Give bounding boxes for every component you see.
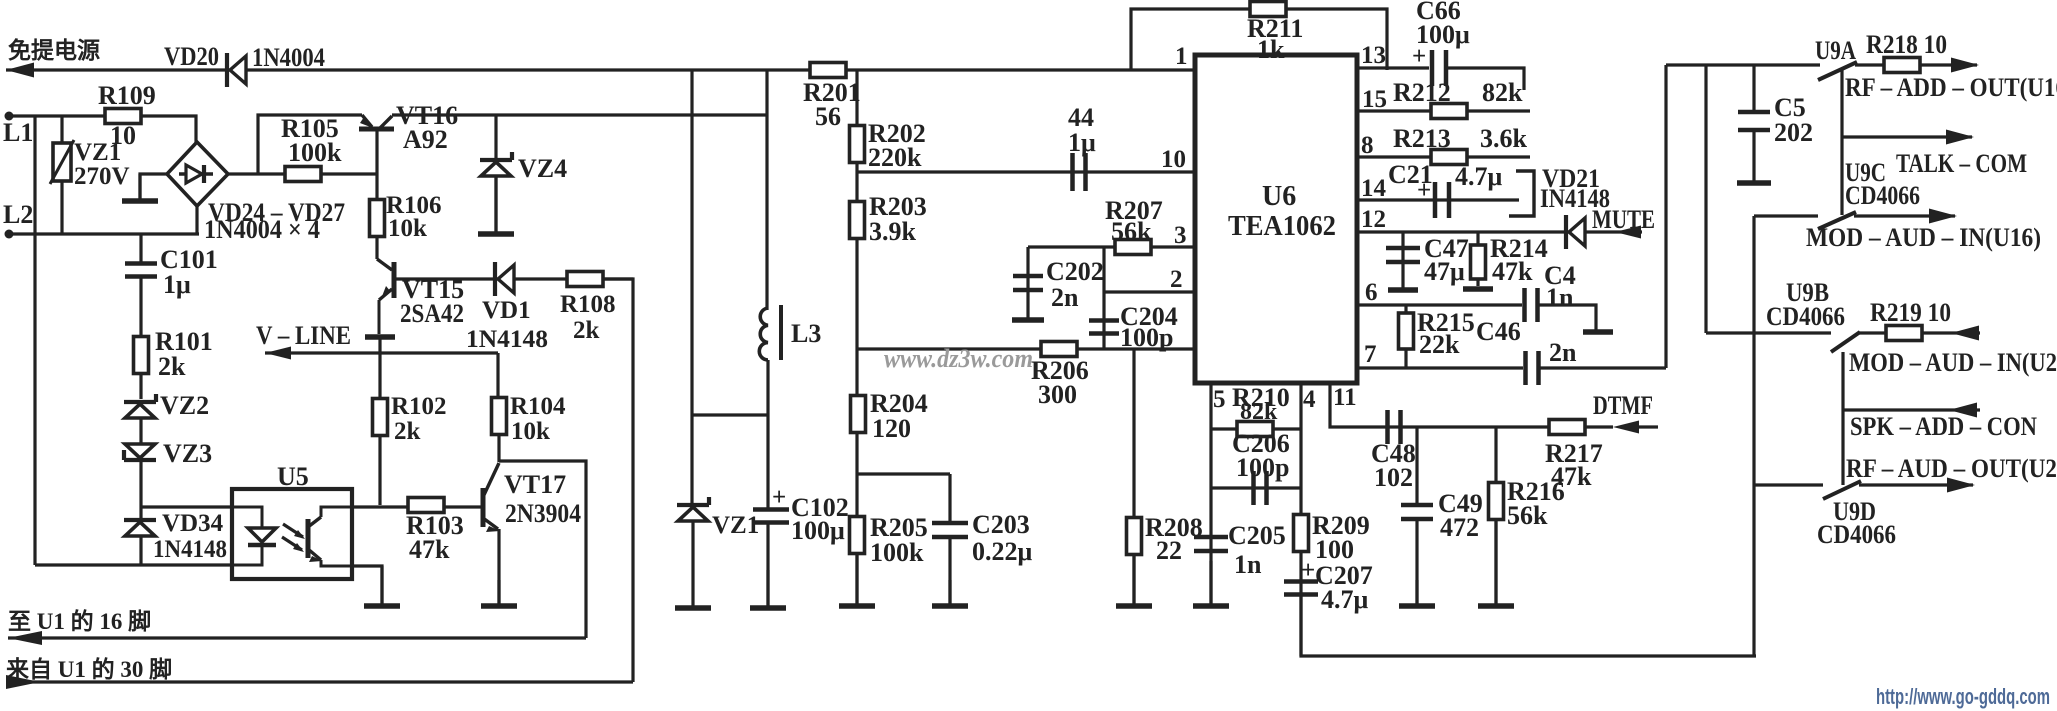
wire R102 bottom to opto output node	[378, 435, 381, 505]
zener diode VZ3	[124, 444, 156, 460]
arrow head RF-ADD-OUT	[1951, 58, 1979, 73]
svg-text:R104: R104	[510, 393, 566, 420]
svg-text:10k: 10k	[388, 215, 427, 242]
resistor R105	[285, 167, 321, 182]
resistor R101	[134, 337, 149, 374]
terminal bar below R214	[1463, 286, 1493, 292]
wire VT15 base to VD1/R108	[396, 277, 633, 280]
bridge rectifier VD24-VD27	[167, 142, 228, 206]
svg-text:47k: 47k	[409, 535, 450, 564]
svg-text:C202: C202	[1046, 257, 1104, 286]
wire pin4 chain	[1299, 383, 1302, 656]
resistor R210	[1237, 422, 1273, 437]
capacitor C66 100u	[1432, 50, 1446, 86]
ground below R216	[1478, 519, 1514, 606]
resistor R201	[810, 63, 846, 78]
wire pin5 chain	[1209, 383, 1212, 604]
wire pin13 to C66	[1357, 66, 1429, 69]
wire pin3 R207 rail	[1028, 245, 1193, 248]
svg-text:56k: 56k	[1507, 501, 1548, 530]
inductor L3	[759, 305, 781, 360]
resistor R204	[851, 396, 866, 433]
svg-text:C203: C203	[972, 510, 1030, 539]
svg-text:220k: 220k	[868, 143, 922, 172]
wire R108 to from-U1-pin30 line	[604, 279, 633, 682]
svg-text:来自 U1 的 30 脚: 来自 U1 的 30 脚	[6, 656, 172, 682]
svg-text:100p: 100p	[1236, 453, 1289, 482]
wire U9B rail	[1706, 331, 1831, 334]
svg-text:1N4148: 1N4148	[153, 536, 227, 563]
resistor R108	[567, 272, 603, 287]
IC U6 TEA1062 box	[1195, 55, 1357, 383]
svg-text:MOD – AUD – IN(U2: MOD – AUD – IN(U2	[1849, 348, 2057, 377]
resistor R216	[1489, 483, 1504, 520]
wire from-U1-pin30 line	[6, 680, 633, 683]
wire bridge left vertex to ground	[140, 174, 168, 199]
ground below C49	[1399, 580, 1435, 606]
svg-text:CD4066: CD4066	[1766, 302, 1845, 331]
wire TALK-COM rail	[1842, 135, 1972, 138]
capacitor C101	[125, 264, 157, 277]
svg-text:2k: 2k	[394, 418, 421, 445]
wire L1 rail B	[9, 116, 196, 146]
svg-text:VD34: VD34	[162, 510, 224, 537]
svg-text:VT17: VT17	[504, 470, 566, 499]
svg-text:www.dz3w.com: www.dz3w.com	[884, 344, 1033, 373]
switch U9A blade	[1818, 62, 1857, 80]
capacitor 44 1u	[1073, 153, 1086, 191]
wire R214 branch	[1476, 232, 1479, 286]
resistor R211	[1250, 2, 1286, 17]
resistor R203	[850, 202, 865, 239]
wire bridge right vertex to VT16 base via R105	[227, 172, 377, 175]
wire VZ3/VD34 node to U5 anode pin	[142, 505, 232, 508]
wire R216 branch	[1494, 427, 1497, 604]
wire R205/C203 junction rail	[857, 472, 950, 475]
resistor R206	[1041, 342, 1077, 357]
wire C46 to right riser	[1540, 366, 1666, 369]
wire C49 to ground	[1415, 520, 1418, 604]
svg-text:100μ: 100μ	[791, 516, 845, 545]
wire L3 bottom to C102	[766, 360, 769, 508]
wire U5 cathode pin lower-left rail	[35, 563, 232, 566]
ground below VT17	[481, 580, 517, 606]
svg-text:R212: R212	[1393, 78, 1451, 107]
wire VZ3 to VD34 node	[139, 460, 142, 519]
wire pin6 C4 rail	[1357, 303, 1522, 306]
svg-text:U6: U6	[1262, 181, 1296, 212]
svg-text:5: 5	[1213, 386, 1226, 413]
resistor R104	[492, 398, 507, 435]
svg-text:1n: 1n	[1546, 283, 1574, 312]
wire pin15 R212 rail	[1357, 109, 1530, 112]
svg-text:100: 100	[1315, 535, 1354, 564]
ground below VZ1 shunt	[675, 521, 711, 608]
resistor R205	[850, 517, 865, 554]
svg-text:2n: 2n	[1051, 283, 1079, 312]
wire SPK-ADD-CON rail	[1843, 408, 1980, 411]
svg-text:11: 11	[1333, 384, 1357, 411]
svg-text:100p: 100p	[1120, 323, 1173, 352]
arrow head MOD-AUD-IN(U16)	[1929, 209, 1957, 224]
wire DTMF stub right of arrow	[1639, 425, 1658, 428]
arrow head TALK-COM	[1946, 130, 1974, 145]
optocoupler U5 phototransistor	[308, 507, 352, 566]
svg-text:R218 10: R218 10	[1866, 30, 1947, 59]
svg-text:TEA1062: TEA1062	[1228, 211, 1336, 242]
svg-text:7: 7	[1364, 341, 1377, 368]
svg-text:L1: L1	[3, 118, 33, 147]
optocoupler U5 box	[232, 489, 352, 579]
svg-text:VZ1: VZ1	[712, 512, 759, 539]
capacitor C203	[932, 523, 968, 537]
wire VZ4 branch	[494, 115, 497, 232]
terminal bar VT15 emitter	[365, 334, 395, 340]
wire VZ2 to VZ3	[139, 418, 142, 446]
capacitor C48	[1388, 410, 1401, 444]
wire MOD-AUD-IN(U16) rail	[1754, 214, 1818, 217]
svg-text:47μ: 47μ	[1424, 257, 1465, 286]
wire R215 bridging pin6 to pin7	[1404, 305, 1407, 368]
transistor VT17 (2N3904 NPN)	[483, 463, 500, 532]
zener diode VZ2	[124, 394, 156, 418]
svg-text:10: 10	[110, 121, 136, 150]
wire right riser pin7 to top rail	[1664, 65, 1667, 368]
ground at bridge left	[122, 174, 158, 201]
svg-text:RF – AUD – OUT(U2: RF – AUD – OUT(U2	[1846, 454, 2057, 483]
svg-text:R109: R109	[98, 81, 156, 110]
terminal bar below C202	[1012, 317, 1044, 323]
svg-text:R108: R108	[560, 291, 616, 318]
wire C47 branch	[1401, 232, 1404, 288]
terminal bar below C5	[1737, 180, 1771, 186]
svg-text:1μ: 1μ	[163, 270, 191, 299]
arrow head RF-AUD-OUT	[1947, 478, 1975, 493]
wire R208 branch	[1132, 349, 1135, 604]
ground below C203	[932, 580, 968, 606]
svg-text:C205: C205	[1228, 521, 1286, 550]
wire bridge output up-junction to VT16 emitter	[258, 115, 362, 174]
capacitor C49	[1401, 505, 1433, 519]
wire L2 rail	[9, 232, 199, 235]
wire VD34 to lower rail	[139, 536, 142, 565]
svg-text:A92: A92	[403, 125, 448, 154]
ground below C102	[750, 570, 786, 608]
wire opto collector to VT17 base	[352, 505, 482, 508]
wire bridge bottom vertex to L2	[195, 205, 198, 234]
resistor R207	[1115, 240, 1151, 255]
terminal bar below C47	[1388, 287, 1418, 293]
capacitor C47	[1386, 248, 1420, 262]
wire R218 to RF-ADD-OUT arrow	[1920, 63, 1977, 66]
resistor R212	[1431, 104, 1467, 119]
transistor VT16 (A92 PNP)	[359, 115, 394, 129]
svg-text:RF – ADD – OUT(U16: RF – ADD – OUT(U16	[1845, 73, 2057, 102]
capacitor C21 4.7u	[1435, 182, 1449, 218]
svg-text:L3: L3	[791, 319, 821, 348]
wire C202 branch	[1026, 247, 1029, 318]
svg-text:R213: R213	[1393, 124, 1451, 153]
svg-text:2SA42: 2SA42	[400, 299, 464, 328]
wire VT15 emitter junction down to R102	[378, 353, 381, 400]
capacitor C46	[1526, 351, 1539, 385]
svg-text:8: 8	[1361, 132, 1374, 159]
svg-text:100μ: 100μ	[1416, 20, 1470, 49]
svg-text:47k: 47k	[1492, 257, 1533, 286]
svg-text:4: 4	[1303, 386, 1316, 413]
wire U9A to R218	[1855, 63, 1884, 66]
svg-text:13: 13	[1361, 42, 1386, 69]
svg-text:22k: 22k	[1419, 330, 1460, 359]
wire R219 rail	[1858, 331, 1980, 334]
wire R206 rail to U6	[857, 347, 1193, 350]
wire pin8 R213 rail	[1357, 155, 1530, 158]
resistor R218	[1884, 58, 1920, 73]
svg-text:14: 14	[1361, 175, 1387, 202]
capacitor C207 4.7u	[1284, 582, 1318, 595]
wire C206 rail	[1211, 486, 1301, 489]
svg-text:3.9k: 3.9k	[869, 217, 917, 246]
svg-text:1k: 1k	[1257, 35, 1285, 64]
svg-text:VZ3: VZ3	[163, 439, 212, 468]
ground below VZ4	[478, 176, 514, 234]
arrow head V-LINE	[265, 347, 291, 360]
wire VZ1 to L3 jog	[692, 413, 768, 416]
resistor R219	[1886, 326, 1922, 341]
svg-text:CD4066: CD4066	[1845, 181, 1920, 210]
optocoupler U5 light arrows	[282, 524, 305, 552]
svg-text:至 U1 的 16 脚: 至 U1 的 16 脚	[8, 608, 151, 634]
svg-text:82k: 82k	[1482, 78, 1523, 107]
svg-text:http://www.go-gddq.com: http://www.go-gddq.com	[1876, 684, 2050, 709]
wire R104 bottom to VT17 collector	[497, 434, 500, 462]
wire C203 branch	[948, 474, 951, 521]
arrow head to-U1-pin16	[8, 631, 42, 645]
svg-text:56: 56	[815, 102, 841, 131]
arrow head MUTE	[1615, 226, 1641, 239]
wire R210 rail	[1211, 427, 1301, 430]
switch U9B blade	[1831, 332, 1860, 352]
wire pin10 coupling rail	[857, 170, 1193, 173]
arrow head DTMF	[1613, 421, 1639, 434]
ground below C205	[1193, 561, 1229, 606]
wire R202 chain vertical	[855, 70, 858, 474]
svg-text:+: +	[772, 484, 786, 511]
svg-text:1μ: 1μ	[1068, 128, 1096, 157]
wire riser to U9B	[1704, 65, 1707, 333]
terminal bar below C4 hook	[1583, 329, 1613, 335]
resistor R202	[850, 126, 865, 163]
wire U9C to arrow	[1854, 214, 1955, 217]
svg-text:U5: U5	[277, 462, 309, 491]
wire C5 to ground	[1752, 130, 1755, 181]
wire junction rail-A to rail-C and L3	[765, 70, 768, 310]
svg-text:56k: 56k	[1111, 217, 1152, 246]
svg-text:3: 3	[1174, 222, 1187, 249]
svg-text:10k: 10k	[511, 418, 550, 445]
svg-text:0.22μ: 0.22μ	[972, 537, 1033, 566]
resistor R103	[408, 498, 444, 513]
wire pin12 MUTE rail	[1357, 230, 1642, 233]
wire C102 to ground	[766, 524, 769, 606]
svg-text:C46: C46	[1476, 317, 1521, 346]
svg-text:10: 10	[1161, 146, 1186, 173]
resistor R209	[1294, 515, 1309, 552]
node L2 terminal dot	[5, 230, 14, 239]
wire R101 to VZ2	[139, 374, 142, 399]
svg-text:2k: 2k	[158, 352, 186, 381]
diode VD34	[124, 520, 156, 536]
transistor VT15 (2SA42 PNP)	[377, 259, 394, 334]
svg-text:V – LINE: V – LINE	[256, 321, 351, 350]
svg-text:100k: 100k	[288, 138, 342, 167]
svg-text:4.7μ: 4.7μ	[1321, 585, 1369, 614]
svg-text:C21: C21	[1388, 160, 1433, 189]
resistor R214	[1471, 245, 1486, 279]
wire RF-AUD-OUT rail	[1754, 483, 1823, 486]
svg-text:2k: 2k	[573, 317, 600, 344]
diode VD1	[495, 262, 514, 296]
svg-text:U9A: U9A	[1815, 36, 1856, 65]
svg-text:L2: L2	[3, 200, 33, 229]
svg-text:120: 120	[872, 414, 911, 443]
arrow head SPK-ADD-CON	[1949, 403, 1977, 418]
wire C101 to R101	[139, 278, 142, 336]
capacitor C202	[1013, 276, 1043, 290]
wire VZ1 zener branch	[690, 70, 693, 503]
svg-text:VZ4: VZ4	[518, 154, 567, 183]
ground below R205	[839, 553, 875, 606]
wire left vertical from L1 to U5 lower wire	[33, 116, 36, 565]
resistor R208	[1127, 518, 1142, 555]
wire C101 chain vertical	[139, 234, 142, 262]
wire V-LINE down to R104	[496, 353, 499, 399]
wire pin11 to DTMF rail	[1330, 383, 1613, 427]
wire U9A common down to U9C	[1840, 70, 1843, 215]
wire V-LINE rail	[265, 351, 498, 354]
svg-text:R219 10: R219 10	[1870, 298, 1951, 327]
wire VT16 base down to VT15	[375, 131, 378, 259]
svg-text:MUTE: MUTE	[1592, 205, 1655, 234]
wire C49 branch	[1415, 427, 1418, 504]
svg-text:472: 472	[1440, 513, 1479, 542]
resistor R109	[105, 109, 141, 124]
wire VT15 emitter to V-LINE rail	[378, 337, 381, 352]
svg-text:270V: 270V	[74, 163, 130, 190]
wire C203 to ground	[948, 538, 951, 604]
resistor R213	[1431, 150, 1467, 165]
wire VT17 collector to to-U1-pin16 line	[499, 461, 586, 638]
wire top rail A (hands-free supply to U6 pin1)	[6, 68, 1193, 71]
ground below U5	[364, 566, 400, 606]
arrow head hands-free power output	[6, 63, 34, 78]
ground below R208	[1116, 554, 1152, 606]
wire pin7 C46 rail	[1357, 366, 1523, 369]
svg-text:DTMF: DTMF	[1593, 391, 1653, 420]
svg-text:100k: 100k	[870, 538, 924, 567]
svg-text:VZ2: VZ2	[160, 391, 209, 420]
wire C4 right hook down	[1539, 305, 1596, 330]
svg-text:3.6k: 3.6k	[1480, 124, 1528, 153]
svg-text:12: 12	[1361, 206, 1386, 233]
svg-text:2N3904: 2N3904	[505, 499, 581, 528]
svg-text:15: 15	[1362, 86, 1387, 113]
diode VD21	[1566, 215, 1585, 249]
wire U9 main riser	[1752, 216, 1755, 656]
svg-text:47k: 47k	[1551, 462, 1592, 491]
svg-text:1: 1	[1175, 43, 1188, 70]
wire U9B common down	[1841, 352, 1844, 485]
capacitor C205	[1194, 537, 1228, 551]
svg-text:2n: 2n	[1549, 338, 1577, 367]
svg-text:102: 102	[1374, 463, 1413, 492]
capacitor C102 100u	[753, 510, 789, 523]
capacitor C5	[1738, 112, 1770, 130]
switch U9C blade	[1818, 212, 1856, 229]
svg-text:VD1: VD1	[482, 297, 531, 324]
svg-text:免提电源: 免提电源	[8, 37, 100, 63]
svg-text:2: 2	[1170, 266, 1183, 293]
resistor R217	[1549, 420, 1585, 435]
capacitor C206	[1254, 471, 1267, 505]
svg-text:1N4004: 1N4004	[252, 43, 325, 72]
wire pin14 C21 rail	[1357, 198, 1519, 201]
svg-text:82k: 82k	[1240, 399, 1278, 425]
diode VD20	[227, 53, 246, 87]
resistor R102	[373, 399, 388, 436]
svg-text:CD4066: CD4066	[1817, 520, 1896, 549]
svg-text:6: 6	[1365, 279, 1378, 306]
wire VT16 collector rail C to L3 junction	[392, 113, 767, 116]
switch U9D blade	[1823, 481, 1861, 499]
svg-text:22: 22	[1156, 536, 1182, 565]
wire C207 bottom to U9 riser	[1301, 596, 1756, 656]
svg-text:TALK – COM: TALK – COM	[1896, 149, 2027, 178]
svg-text:MOD – AUD – IN(U16): MOD – AUD – IN(U16)	[1806, 223, 2041, 252]
svg-text:1N4004 × 4: 1N4004 × 4	[204, 215, 320, 244]
wire C204 bridging pin3/pin2 to R206 rail	[1102, 247, 1105, 349]
resistor R215	[1399, 313, 1414, 349]
svg-text:VD20: VD20	[164, 42, 219, 71]
wire U9D to arrow	[1859, 483, 1973, 486]
wire C5 branch	[1752, 65, 1755, 112]
node L1 terminal dot	[5, 112, 14, 121]
capacitor C204	[1089, 321, 1119, 334]
svg-text:1N4148: 1N4148	[466, 326, 548, 353]
arrow head MOD-AUD-IN(U2)	[1951, 326, 1979, 341]
wire to-U1-pin16 line	[8, 636, 586, 639]
zener diode VZ1 (shunt)	[677, 497, 709, 521]
zener diode VZ4	[480, 152, 512, 176]
optocoupler U5 internal LED	[232, 507, 276, 565]
arrow head from-U1-pin30	[6, 675, 40, 689]
wire VT17 emitter to ground	[497, 529, 500, 604]
wire top rail right section	[1666, 63, 1820, 66]
svg-text:R102: R102	[391, 393, 447, 420]
svg-text:SPK – ADD – CON: SPK – ADD – CON	[1850, 412, 2037, 441]
svg-text:202: 202	[1774, 118, 1813, 147]
svg-text:4.7μ: 4.7μ	[1455, 162, 1503, 191]
svg-text:300: 300	[1038, 380, 1077, 409]
wire R211 feedback loop	[1131, 9, 1387, 70]
capacitor C4	[1525, 288, 1538, 322]
resistor R106	[370, 200, 385, 237]
wire R205 chain lower	[855, 474, 858, 604]
connector bracket at C21	[1509, 171, 1534, 216]
svg-text:1n: 1n	[1234, 550, 1262, 579]
varistor VZ1 270V	[50, 116, 74, 234]
wire pin2 rail	[1104, 290, 1193, 293]
